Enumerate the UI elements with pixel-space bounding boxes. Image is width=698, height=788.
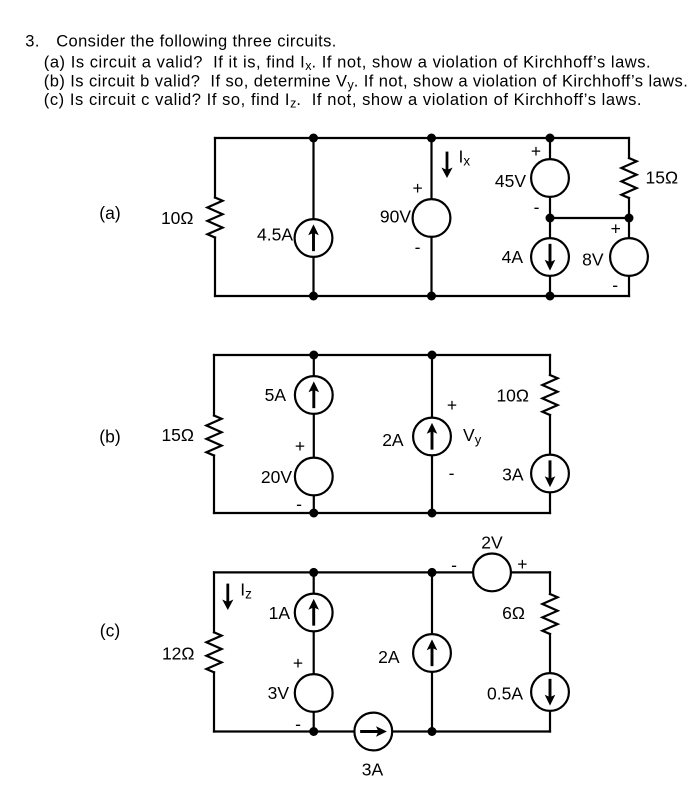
wire 2A lower (c) [431,673,433,732]
wire right lower (c) [549,712,551,732]
wire 1A upper [313,572,315,592]
svg-text:+: + [611,219,621,239]
current source 1A [295,594,333,632]
wire 20V lower [313,496,315,513]
voltage source 20V [295,458,333,496]
svg-text:3A: 3A [362,760,384,780]
svg-text:-: - [295,714,301,734]
wire top left (c) [214,571,472,573]
node top of 1A branch [309,568,318,577]
wire between 15Ω and 8V [628,198,630,238]
current source 2A (c) [413,634,451,672]
node top of 2A branch (b) [428,351,437,360]
wire between 1A and 3V [313,632,315,673]
voltage source 2V [473,554,511,592]
svg-text:(b) Is circuit b valid? If so: (b) Is circuit b valid? If so, determine… [44,72,688,92]
resistor 15Ω [621,158,636,198]
node bottom of 20V branch [309,509,318,518]
svg-text:+: + [412,178,422,198]
svg-text:10Ω: 10Ω [496,386,529,406]
svg-text:Ix: Ix [459,147,471,169]
circuit (c) [100,533,569,780]
wire 90V branch upper [430,138,432,198]
svg-text:90V: 90V [380,207,411,227]
svg-text:(c) Is circuit c valid? If so,: (c) Is circuit c valid? If so, find Iz. … [44,91,642,111]
wire 3V lower [313,713,315,732]
node top of 5A branch [309,351,318,360]
node top of 2A branch (c) [428,568,437,577]
wire bottom (b) [214,512,550,514]
resistor 6Ω [542,594,557,634]
svg-text:15Ω: 15Ω [646,168,679,188]
voltage source 90V [413,199,451,237]
svg-text:-: - [451,555,457,575]
svg-text:3V: 3V [268,683,290,703]
svg-text:4.5A: 4.5A [257,225,293,245]
wire 2A upper (b) [431,355,433,417]
node top of 90V branch [427,134,436,143]
svg-text:0.5A: 0.5A [487,684,523,704]
svg-text:+: + [447,395,457,415]
circuit (a) [99,134,678,301]
svg-text:-: - [534,197,540,217]
voltage source 45V [531,159,569,197]
current source 0.5A [531,673,569,711]
svg-text:+: + [517,554,527,574]
resistor 12Ω [206,632,221,672]
svg-text:Vy: Vy [463,425,482,447]
node bottom of 4A branch [546,292,555,301]
wire middle horizontal (a) [550,217,629,219]
wire 2A lower (b) [431,456,433,513]
circuit (b) [99,351,569,518]
wire right upper (a) [628,138,630,158]
wire left upper (c) [213,572,215,632]
wire right upper (c) [549,572,551,594]
node top of 45V branch [546,134,555,143]
current source 3A (b) [531,455,569,493]
wire right upper (b) [549,355,551,375]
svg-text:-: - [449,463,455,483]
svg-text:(c): (c) [100,620,120,640]
resistor 10Ω [207,198,222,238]
svg-text:10Ω: 10Ω [161,208,194,228]
svg-text:12Ω: 12Ω [162,644,195,664]
svg-text:-: - [415,237,421,257]
resistor 10Ω (b) [542,375,557,415]
svg-text:+: + [293,653,303,673]
wire between 10Ω and 3A [549,415,551,454]
svg-text:-: - [612,275,618,295]
wire 2A upper (c) [431,572,433,633]
svg-text:2A: 2A [382,430,404,450]
svg-text:(b): (b) [99,426,120,446]
node bottom of 2A branch (b) [428,509,437,518]
wire top right (c) [512,571,550,573]
svg-text:2A: 2A [378,647,400,667]
resistor 15Ω (b) [206,416,221,456]
svg-text:1A: 1A [269,603,291,623]
node middle right (a) [625,214,634,223]
current source 3A (c) [354,713,392,751]
wire left lower (c) [213,672,215,731]
current source 4.5A [295,219,333,257]
wire bottom (a) [215,295,629,297]
wire 4.5A branch upper [312,138,314,219]
wire top (a) [215,137,629,139]
voltage source 3V [295,674,333,712]
current arrow Iz [222,585,233,610]
node top of 4.5A branch [309,134,318,143]
svg-text:(a): (a) [99,203,120,223]
wire 4A lower [549,277,551,297]
wire 90V branch lower [430,237,432,296]
svg-text:2V: 2V [481,533,503,553]
wire left lower (a) [214,238,216,297]
svg-text:8V: 8V [582,250,604,270]
wire 5A upper [313,355,315,376]
svg-text:3.: 3. [25,33,40,51]
svg-text:+: + [295,436,305,456]
node bottom of 4.5A branch [309,292,318,301]
wire 4.5A branch lower [312,258,314,297]
svg-text:-: - [296,494,302,514]
svg-text:3A: 3A [502,465,524,485]
wire 45V branch upper [549,138,551,159]
current arrow Ix [441,153,452,178]
svg-text:15Ω: 15Ω [161,425,194,445]
wire right lower (a) [628,277,630,297]
current source 2A (b) [413,418,451,456]
node bottom of 3V branch [309,727,318,736]
node middle 45V branch [546,214,555,223]
svg-text:6Ω: 6Ω [502,603,525,623]
svg-text:5A: 5A [265,385,287,405]
wire between 5A and 20V [313,415,315,458]
svg-text:Iz: Iz [240,580,252,602]
wire top (b) [214,354,550,356]
voltage source 8V [610,238,648,276]
svg-text:(a) Is circuit a valid? If it: (a) Is circuit a valid? If it is, find I… [44,53,651,73]
wire left upper (a) [214,138,216,198]
svg-text:4A: 4A [502,247,524,267]
svg-text:Consider the following three c: Consider the following three circuits. [56,33,337,51]
wire left upper (b) [213,355,215,416]
svg-text:45V: 45V [495,171,526,191]
svg-text:20V: 20V [261,467,292,487]
current source 5A [295,376,333,414]
node bottom of 2A branch (c) [428,727,437,736]
current source 4A [531,238,569,276]
wire between 6Ω and 0.5A [549,634,551,673]
svg-text:+: + [531,141,541,161]
wire between 45V and 4A [549,198,551,238]
question line 1 [25,33,337,51]
wire left lower (b) [213,456,215,514]
node bottom of 90V branch [427,292,436,301]
wire right lower (b) [549,493,551,513]
wire bottom left (c) [214,730,354,732]
wire bottom right (c) [393,730,550,732]
